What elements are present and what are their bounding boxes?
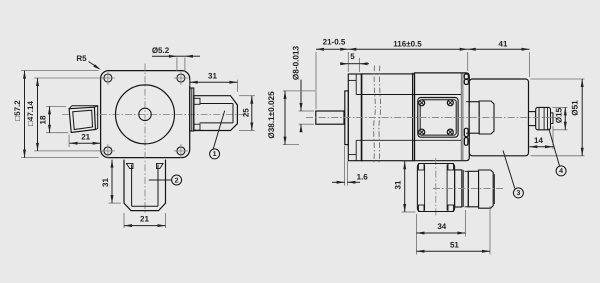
- svg-text:31: 31: [208, 71, 217, 80]
- balloon 2: [149, 175, 182, 185]
- left port flange outline: [69, 106, 98, 133]
- svg-text:21: 21: [140, 214, 149, 223]
- svg-text:41: 41: [499, 39, 508, 48]
- bottom port connector: [465, 170, 495, 208]
- right view centerline: [306, 117, 556, 119]
- bottom port centerline v: [435, 158, 437, 217]
- dimension Ø8-0.013: [292, 45, 314, 132]
- mounting flange block: [348, 74, 362, 161]
- svg-text:25: 25: [241, 108, 250, 117]
- svg-text:1.6: 1.6: [357, 172, 369, 181]
- svg-text:Ø51: Ø51: [571, 100, 580, 116]
- svg-text:21-0.5: 21-0.5: [323, 37, 346, 46]
- end cover: [413, 73, 470, 161]
- bolt hole 2 Ø5.2: [174, 71, 188, 85]
- svg-text:116±0.5: 116±0.5: [393, 39, 422, 48]
- connector 1 flange strip: [190, 88, 194, 131]
- dimension 51: [416, 206, 490, 255]
- bolt hole 4 Ø5.2: [174, 144, 188, 158]
- dimension Ø51: [531, 79, 585, 156]
- bottom port plate: [417, 164, 454, 212]
- dimension Ø38.1±0.025: [267, 91, 315, 145]
- bolt hole 1 Ø5.2: [101, 71, 115, 85]
- svg-text:51: 51: [450, 241, 459, 250]
- dimension 21 port: [69, 133, 101, 147]
- connector 1 body: [194, 96, 238, 131]
- balloon 3: [503, 151, 523, 198]
- pilot disc: [345, 91, 349, 145]
- bolt hole 3 Ø5.2: [101, 144, 115, 158]
- left view horizontal centerline: [62, 113, 247, 115]
- dimension 31 connector 1: [190, 71, 238, 92]
- svg-text:14: 14: [534, 136, 543, 145]
- dimension 31 connector 2: [101, 160, 121, 204]
- svg-text:18: 18: [39, 115, 48, 124]
- pilot circle Ø38.1: [116, 85, 175, 144]
- dimension 21-0.5: [316, 37, 348, 109]
- svg-text:□57.2: □57.2: [13, 100, 22, 121]
- dimension 18: [39, 106, 69, 132]
- svg-text:□47.14: □47.14: [26, 101, 35, 126]
- svg-text:Ø5.2: Ø5.2: [152, 46, 170, 55]
- dimension 25: [239, 96, 255, 131]
- connector 2 body: [124, 160, 166, 211]
- bottom port rear block: [455, 170, 464, 207]
- dimension □47.14: [26, 78, 104, 151]
- svg-text:Ø15: Ø15: [555, 107, 564, 123]
- dimension 14: [529, 126, 553, 149]
- port plate: [418, 98, 458, 138]
- svg-text:Ø8-0.013: Ø8-0.013: [292, 45, 301, 80]
- svg-text:Ø38.1±0.025: Ø38.1±0.025: [267, 91, 276, 139]
- shaft: [316, 111, 344, 124]
- shaft hole Ø8: [139, 108, 151, 120]
- dimension 41: [468, 39, 530, 77]
- dimension 34: [416, 210, 465, 255]
- rear body Ø51: [469, 79, 528, 156]
- through bolt bottom: [464, 128, 468, 145]
- screw 4: [447, 129, 453, 135]
- left view vertical centerline: [144, 64, 146, 215]
- dimension Ø15: [553, 107, 568, 129]
- gear housing body: [356, 74, 461, 161]
- svg-text:3: 3: [516, 190, 520, 197]
- svg-text:5: 5: [350, 52, 355, 61]
- connector 4 tip: [551, 113, 554, 124]
- dimension Ø5.2: [152, 46, 200, 71]
- svg-text:31: 31: [101, 178, 110, 187]
- balloon 4: [549, 129, 566, 176]
- casting parting lines: [374, 66, 381, 165]
- dimension 5: [340, 52, 369, 72]
- svg-text:2: 2: [175, 177, 179, 184]
- balloon 1: [210, 111, 225, 159]
- svg-text:31: 31: [394, 180, 403, 189]
- dimension 1.6: [332, 146, 368, 186]
- svg-text:4: 4: [559, 168, 563, 175]
- dimension 116±0.5: [348, 39, 467, 71]
- bottom port centerline h: [433, 188, 503, 190]
- rear mid connector: [466, 101, 494, 134]
- svg-text:34: 34: [437, 222, 446, 231]
- screw 2: [447, 100, 453, 106]
- dimension 31 bottom port: [394, 161, 416, 212]
- connector 4 neck: [529, 112, 536, 126]
- label R5: [76, 54, 101, 70]
- through bolt top: [464, 74, 468, 84]
- svg-text:R5: R5: [76, 54, 87, 63]
- dimension 21 connector 2: [124, 213, 166, 228]
- screw 1: [419, 100, 425, 106]
- svg-text:21: 21: [81, 133, 90, 142]
- svg-text:1: 1: [213, 151, 217, 158]
- dimension □57.2: [13, 71, 98, 158]
- connector 4 nut: [536, 107, 551, 129]
- left view body square: [101, 71, 190, 158]
- screw 3: [419, 129, 425, 135]
